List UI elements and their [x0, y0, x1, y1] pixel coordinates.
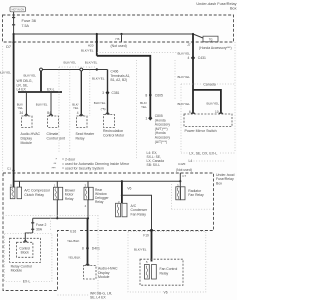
svg-text:Box: Box [216, 181, 222, 185]
fuse 2 line [33, 217, 88, 219]
svg-text:C381: C381 [112, 91, 120, 95]
svg-text:YEL/BLK: YEL/BLK [67, 239, 80, 243]
thick corner wire to center [97, 56, 151, 118]
under-hood fuse/relay box [3, 173, 214, 291]
left margin dotted border [2, 46, 4, 172]
V6 variant box [128, 232, 206, 293]
hot-in-on box [10, 7, 26, 12]
svg-text:Module: Module [11, 269, 23, 273]
svg-text:(*5): (*5) [101, 107, 106, 111]
svg-text:BLK/YEL: BLK/YEL [23, 73, 36, 77]
svg-text:Power Mirror Switch: Power Mirror Switch [185, 129, 217, 133]
svg-text:(Not used): (Not used) [176, 168, 192, 172]
svg-text:D401: D401 [92, 247, 100, 251]
svg-text:(Honda Accessory***): (Honda Accessory***) [199, 46, 232, 50]
variant separator [194, 160, 226, 162]
svg-text:Module: Module [21, 141, 33, 145]
main feed line [14, 33, 193, 35]
svg-text:Relay: Relay [76, 137, 85, 141]
svg-text:BLK/YEL: BLK/YEL [0, 71, 11, 75]
svg-text:BLK/YEL: BLK/YEL [177, 51, 190, 55]
svg-text:LX, SE, DX, EX-L: LX, SE, DX, EX-L [189, 152, 217, 156]
ring junction [40, 68, 43, 71]
component box seat heater relay [77, 116, 88, 128]
svg-text:HOT IN ON: HOT IN ON [12, 8, 25, 11]
svg-text:D7: D7 [6, 45, 11, 49]
stub H6 not used [121, 34, 123, 42]
junction [120, 33, 122, 35]
fuse F2 [32, 218, 34, 233]
wire to condenser fan relay [121, 181, 123, 203]
svg-text:BLK/YEL: BLK/YEL [85, 60, 98, 64]
svg-text:Display: Display [21, 137, 33, 141]
wire to power mirror switch [192, 34, 194, 114]
svg-text:H20: H20 [88, 44, 94, 48]
wire to audio-hvac [25, 92, 27, 116]
svg-text:A/C Compressor: A/C Compressor [24, 189, 51, 193]
svg-text:F19: F19 [143, 234, 149, 238]
component box audio-hvac display module lower [84, 266, 97, 280]
junction [13, 33, 15, 35]
distribution line [14, 180, 181, 182]
svg-text:C605: C605 [155, 93, 163, 97]
svg-text:Seat Heater: Seat Heater [76, 132, 96, 136]
junction [96, 33, 98, 35]
branch to F19 [121, 194, 123, 196]
svg-text:8: 8 [82, 247, 84, 251]
svg-text:***: *** [52, 167, 57, 171]
svg-text:BLK/YEL: BLK/YEL [177, 75, 190, 79]
svg-text:EX-L: EX-L [47, 88, 55, 92]
svg-text:7g: 7g [209, 38, 213, 42]
wire to recirculation motor [107, 70, 109, 115]
svg-text:= 2-door: = 2-door [62, 157, 76, 161]
svg-text:Audio-HVAC: Audio-HVAC [21, 132, 41, 136]
svg-text:Box: Box [230, 6, 237, 10]
svg-text:EX-L: EX-L [23, 280, 31, 284]
svg-text:C7: C7 [182, 174, 186, 178]
svg-text:Relay: Relay [160, 271, 169, 275]
svg-text:= used for Security System: = used for Security System [62, 167, 104, 171]
variant dotted borders [97, 52, 180, 54]
relay A/C compressor clutch [19, 181, 21, 187]
svg-text:Clutch Relay: Clutch Relay [24, 193, 44, 197]
svg-text:Control Motor: Control Motor [103, 133, 125, 137]
svg-text:B1, A2, B2): B1, A2, B2) [111, 78, 128, 82]
svg-text:Canada: Canada [203, 82, 216, 86]
svg-text:(Not used): (Not used) [111, 44, 127, 48]
wire D7 [13, 34, 15, 173]
relay blower motor [56, 181, 58, 187]
svg-text:= used for Automatic Dimming: = used for Automatic Dimming Inside Mirr… [62, 162, 130, 166]
connector 7g box [193, 34, 203, 38]
svg-text:4: 4 [188, 56, 190, 60]
component box power mirror switch [184, 114, 232, 127]
svg-text:SB: SX-L: SB: SX-L [147, 163, 161, 167]
connector diamond C805 [148, 116, 152, 121]
svg-text:Block: Block [21, 251, 29, 255]
svg-text:Control Unit: Control Unit [47, 137, 66, 141]
svg-text:L4: L4 [189, 159, 193, 163]
svg-text:Recirculation: Recirculation [103, 129, 123, 133]
svg-text:Under-dash Fuse/Relay: Under-dash Fuse/Relay [196, 2, 236, 6]
svg-text:V6: V6 [164, 291, 168, 295]
under-dash fuse/relay box [3, 15, 234, 42]
svg-text:H6: H6 [116, 37, 120, 41]
component box recirculation control motor [104, 115, 115, 128]
svg-text:BLK/YEL: BLK/YEL [94, 101, 106, 105]
connector diamond C431 [191, 56, 195, 61]
canada branch wire [193, 90, 221, 114]
svg-text:C1: C1 [7, 166, 11, 170]
junction [192, 33, 194, 35]
svg-text:(A/T)***): (A/T)***) [155, 140, 167, 144]
svg-text:Climate: Climate [47, 132, 59, 136]
svg-text:V6: V6 [127, 186, 131, 190]
fuse F36 [13, 12, 15, 34]
svg-text:7.5A: 7.5A [22, 24, 30, 28]
svg-text:J7: J7 [187, 43, 191, 47]
svg-text:BLK/YEL: BLK/YEL [64, 60, 77, 64]
svg-text:C431: C431 [198, 56, 206, 60]
svg-text:3: 3 [102, 91, 104, 95]
junction [96, 68, 98, 70]
wire H20 [96, 34, 98, 56]
svg-text:BLK/YEL: BLK/YEL [177, 102, 190, 106]
wire to climate control [50, 92, 52, 116]
connector diamond C381 [106, 91, 110, 95]
jog to control block [25, 233, 32, 242]
svg-text:34: 34 [19, 111, 23, 115]
svg-text:BLK/YEL: BLK/YEL [92, 77, 105, 81]
svg-text:BLK/YEL: BLK/YEL [36, 102, 48, 106]
svg-text:8: 8 [145, 93, 147, 97]
wire to fan control relay [151, 230, 153, 261]
relay radiator fan [179, 180, 181, 182]
wire to D401 [87, 218, 89, 265]
svg-text:YEL: YEL [73, 106, 79, 110]
svg-text:E16: E16 [70, 229, 76, 233]
svg-text:Module: Module [98, 275, 110, 279]
svg-text:Fan Relay: Fan Relay [131, 212, 147, 216]
svg-text:YEL: YEL [141, 105, 147, 109]
svg-text:BLK/YEL: BLK/YEL [207, 102, 220, 106]
branch wire left [41, 69, 108, 71]
svg-text:Fuse 36: Fuse 36 [22, 18, 37, 23]
svg-text:10: 10 [215, 110, 219, 114]
relay control module [10, 238, 41, 262]
connector E16 [70, 228, 81, 233]
ring junction [80, 68, 83, 71]
svg-text:YEL: YEL [18, 106, 24, 110]
svg-text:BLK/YEL: BLK/YEL [81, 49, 94, 53]
bus bar [18, 91, 62, 93]
svg-text:Fuse 2: Fuse 2 [36, 223, 46, 227]
junction D401 [86, 247, 89, 250]
stub C7 [179, 173, 181, 181]
wire to seat heater relay [80, 71, 82, 116]
EX-L variant box [5, 233, 52, 281]
junction C605 [149, 94, 152, 97]
svg-text:4: 4 [77, 111, 79, 115]
svg-text:6: 6 [189, 110, 191, 114]
wire into box [13, 173, 15, 187]
svg-text:1: 1 [145, 117, 147, 121]
svg-text:L4 EX: L4 EX [17, 88, 27, 92]
fan control relay box [140, 259, 183, 285]
connector F19 [150, 229, 153, 232]
svg-text:SE, L4 EX: SE, L4 EX [90, 295, 106, 299]
svg-text:BLK/YEL: BLK/YEL [134, 248, 147, 252]
wire to bus [40, 71, 42, 92]
svg-text:Relay: Relay [65, 197, 74, 201]
svg-text:30A: 30A [36, 227, 43, 231]
svg-text:Relay: Relay [95, 200, 104, 204]
svg-text:YEL/BLK: YEL/BLK [68, 255, 81, 259]
svg-text:Fan Relay: Fan Relay [188, 193, 204, 197]
relay rear window defogger [87, 181, 89, 187]
component box climate control unit [48, 116, 59, 128]
component box audio-hvac display module [22, 116, 33, 128]
svg-text:C425:: C425: [178, 162, 186, 166]
